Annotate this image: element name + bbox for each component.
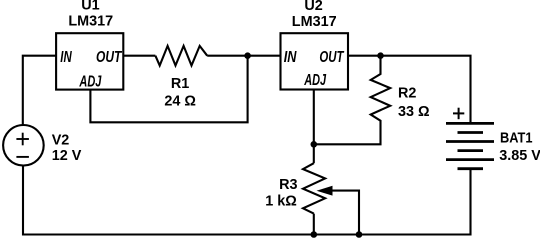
svg-text:24 Ω: 24 Ω (164, 94, 196, 110)
svg-text:R3: R3 (279, 177, 297, 193)
svg-text:ADJ: ADJ (303, 72, 326, 89)
svg-text:LM317: LM317 (292, 14, 337, 30)
svg-text:ADJ: ADJ (79, 73, 102, 90)
svg-text:V2: V2 (52, 132, 70, 148)
svg-text:U1: U1 (81, 0, 99, 14)
svg-text:3.85 V: 3.85 V (499, 148, 540, 164)
svg-text:1 kΩ: 1 kΩ (265, 194, 297, 210)
svg-text:R2: R2 (398, 86, 416, 102)
svg-text:OUT: OUT (319, 49, 344, 66)
svg-text:12 V: 12 V (52, 148, 82, 164)
svg-text:33 Ω: 33 Ω (398, 104, 430, 120)
svg-text:IN: IN (60, 49, 72, 66)
svg-text:BAT1: BAT1 (500, 131, 533, 147)
svg-text:R1: R1 (171, 76, 189, 92)
svg-text:LM317: LM317 (68, 13, 113, 29)
svg-text:IN: IN (284, 49, 297, 66)
svg-text:U2: U2 (304, 0, 322, 14)
svg-text:OUT: OUT (96, 49, 122, 66)
